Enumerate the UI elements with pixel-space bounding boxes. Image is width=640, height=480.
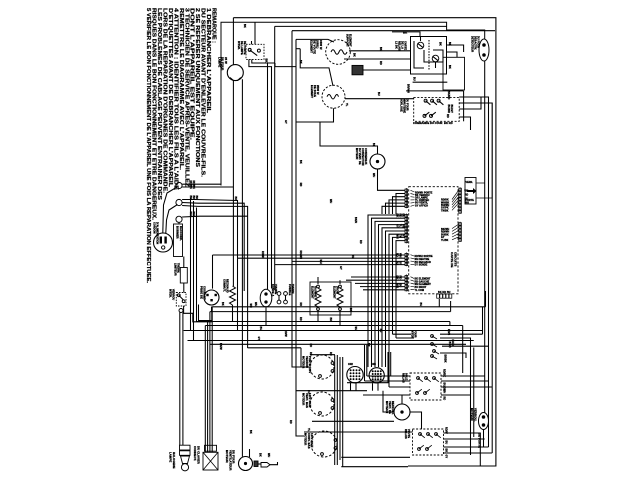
wire xyxy=(419,445,424,449)
wire xyxy=(203,452,218,470)
svg-text:BU/BR: BU/BR xyxy=(447,105,450,114)
element connector CN1 xyxy=(352,65,363,74)
wire fan lead b xyxy=(249,449,251,457)
wire bundle 7 xyxy=(389,234,405,352)
wire xyxy=(464,189,465,191)
svg-text:BU: BU xyxy=(419,303,422,307)
svg-text:BU/B: BU/B xyxy=(448,342,451,348)
clock/timer switches (dashed) xyxy=(414,97,460,121)
svg-text:BK RD BU: BK RD BU xyxy=(438,291,451,294)
svg-text:MOTEUR: MOTEUR xyxy=(355,148,358,160)
svg-text:BK: BK xyxy=(329,318,332,322)
node J1 xyxy=(179,309,183,313)
wire relay internal b xyxy=(414,41,424,68)
wire xyxy=(452,196,459,205)
svg-text:GY: GY xyxy=(339,266,342,270)
svg-text:DU FOUR: DU FOUR xyxy=(477,36,480,48)
wire stub2 xyxy=(247,347,249,350)
wire xyxy=(452,203,459,211)
wire run N xyxy=(238,257,406,259)
wire conn run xyxy=(347,382,389,384)
wire bundle 1 xyxy=(368,215,405,367)
fan connector xyxy=(254,461,258,467)
wire xyxy=(452,227,459,231)
svg-text:ELEMENT: ELEMENT xyxy=(333,286,336,299)
svg-text:CONDENSAT.: CONDENSAT. xyxy=(364,148,367,165)
bake element E2 xyxy=(322,85,345,108)
door switch S1 (dashed) xyxy=(246,44,264,59)
svg-text:5 VERIFIER LE BON FONCTIONNEM: 5 VERIFIER LE BON FONCTIONNEMENT DE L'AP… xyxy=(145,8,151,284)
wire xyxy=(411,205,415,206)
wire switch top lead xyxy=(254,22,256,44)
svg-text:GY AFFICH: GY AFFICH xyxy=(415,204,428,207)
convenience outlet SO1 xyxy=(204,290,219,305)
wire xyxy=(452,224,459,229)
svg-text:RD/W: RD/W xyxy=(261,251,264,258)
svg-text:BK: BK xyxy=(372,143,375,147)
wire run xyxy=(275,264,405,266)
svg-text:L1 BK: L1 BK xyxy=(395,41,398,49)
wire xyxy=(178,222,180,224)
svg-text:VERR.: VERR. xyxy=(466,182,474,184)
svg-text:DESACTIV.: DESACTIV. xyxy=(474,36,477,50)
wire drop 1 xyxy=(211,307,213,452)
wire long run 5 xyxy=(184,330,483,332)
wire run xyxy=(355,282,405,284)
svg-text:RACCORD.: RACCORD. xyxy=(179,226,183,241)
wire long run 7 xyxy=(210,343,466,345)
svg-text:THERM.: THERM. xyxy=(291,284,294,294)
wire switch staircase xyxy=(184,306,212,322)
wire step xyxy=(275,63,296,67)
wire xyxy=(365,380,411,382)
wire xyxy=(426,101,431,105)
svg-text:WH: WH xyxy=(329,199,332,203)
wire xyxy=(411,201,415,204)
svg-text:BU: BU xyxy=(377,92,380,96)
svg-text:ELEMENT: ELEMENT xyxy=(349,34,352,47)
wire m run 6 xyxy=(341,466,408,468)
svg-text:BK: BK xyxy=(299,160,302,164)
svg-text:BU: BU xyxy=(379,329,382,333)
relay board K1 xyxy=(411,37,447,75)
svg-text:RD: RD xyxy=(299,183,302,187)
svg-text:ELEMENT: ELEMENT xyxy=(311,286,314,299)
svg-text:BK: BK xyxy=(445,449,448,453)
wire cord b xyxy=(166,205,178,234)
wire xyxy=(427,445,432,449)
wire xyxy=(434,378,439,382)
wire m lead 6 xyxy=(366,345,368,376)
wire E2 bottom lead xyxy=(296,108,334,122)
wire xyxy=(411,282,415,285)
wire CN1 to relay xyxy=(363,69,411,71)
switch xyxy=(435,433,438,436)
svg-text:BK: BK xyxy=(448,65,451,69)
svg-text:BK/R: BK/R xyxy=(354,217,357,223)
wire xyxy=(452,190,459,200)
connector strip P6 xyxy=(459,222,462,242)
wire xyxy=(411,289,415,291)
wire run xyxy=(292,260,405,262)
broil relay box (dashed) xyxy=(413,429,444,455)
wire xyxy=(278,295,280,300)
svg-text:BK: BK xyxy=(243,24,246,28)
wire xyxy=(452,230,459,234)
svg-text:BORNIER: BORNIER xyxy=(176,226,180,239)
wire power drop b xyxy=(193,201,195,341)
wire N feed b xyxy=(182,203,244,292)
wire xyxy=(411,199,415,201)
wire xyxy=(452,200,459,208)
svg-text:RD/BK: RD/BK xyxy=(189,181,192,190)
wire outlet loop xyxy=(199,305,212,321)
svg-text:BK: BK xyxy=(353,53,356,57)
wire outlet bottom lead xyxy=(211,307,213,312)
svg-text:BU RECHAUD: BU RECHAUD xyxy=(415,261,432,264)
svg-text:RD/B: RD/B xyxy=(447,329,450,335)
grill element box xyxy=(310,282,351,315)
svg-text:RELAIS: RELAIS xyxy=(398,41,401,51)
aux box xyxy=(443,57,465,90)
wire xyxy=(411,277,415,279)
wire relay right a xyxy=(447,45,464,52)
wire xyxy=(433,56,439,60)
oven probe sonde xyxy=(260,289,272,307)
svg-text:HORLOGE: HORLOGE xyxy=(400,99,403,113)
svg-text:BK: BK xyxy=(259,453,262,457)
svg-text:DE PORTE: DE PORTE xyxy=(243,41,246,55)
wire cord a xyxy=(163,188,176,234)
switch xyxy=(433,377,436,380)
svg-text:BU: BU xyxy=(259,327,262,331)
wire xyxy=(417,389,422,393)
wire cn2 pin b xyxy=(355,383,357,391)
switch xyxy=(431,99,434,102)
wire fan top lead xyxy=(401,395,403,404)
wire xyxy=(179,295,183,300)
svg-text:INTER.: INTER. xyxy=(169,289,172,298)
cooling fan motor M6 xyxy=(394,404,410,420)
door lock motor M7 xyxy=(479,413,489,430)
wire xyxy=(203,452,218,470)
wire long run 2 xyxy=(210,311,451,313)
wire g out 3 xyxy=(444,446,489,448)
wire drop 3 xyxy=(207,322,209,453)
wire m run 3 xyxy=(304,431,413,433)
connector strip P3 xyxy=(405,252,408,266)
wire E1 top lead xyxy=(296,39,334,42)
wire bundle 9 xyxy=(396,241,405,338)
svg-text:WH: WH xyxy=(351,255,354,259)
svg-text:BK: BK xyxy=(265,59,269,63)
wire conv top lead xyxy=(320,122,378,154)
wire xyxy=(388,352,390,387)
wire net L2 border xyxy=(221,22,485,185)
wire upper bundle 2 xyxy=(393,197,406,214)
wire fan left lead xyxy=(383,391,394,412)
svg-text:RELAIS: RELAIS xyxy=(404,429,407,439)
wire cn3 pin c xyxy=(387,352,389,383)
wire xyxy=(411,280,415,281)
wire xyxy=(389,386,410,388)
svg-text:YL COM: YL COM xyxy=(415,290,425,292)
svg-text:CN3: CN3 xyxy=(371,364,377,366)
wire fan right lead xyxy=(410,412,422,429)
svg-text:VERROU: VERROU xyxy=(172,289,175,300)
wire sw out 1 xyxy=(440,333,483,335)
svg-text:GY: GY xyxy=(445,455,448,459)
wire bundle 5 xyxy=(382,228,405,367)
connector strip P4 xyxy=(405,274,408,291)
door lock motor M1 xyxy=(310,355,334,379)
svg-text:BU/BK: BU/BK xyxy=(441,234,449,236)
wire E pin b xyxy=(450,301,452,312)
wire xyxy=(405,188,407,208)
wire lamp lead a xyxy=(232,80,234,286)
svg-text:BU: BU xyxy=(445,441,448,445)
svg-text:WH: WH xyxy=(254,302,257,306)
svg-text:DETECTEUR: DETECTEUR xyxy=(471,36,474,52)
switch xyxy=(416,392,419,395)
door interlock switch S2 xyxy=(176,293,186,307)
wire net N inner xyxy=(275,25,447,27)
svg-text:2500 W: 2500 W xyxy=(316,85,320,95)
wire bundle to sw a xyxy=(393,333,412,335)
wire xyxy=(405,252,407,266)
svg-text:RD: RD xyxy=(309,352,312,356)
svg-text:CN2: CN2 xyxy=(348,364,354,366)
svg-text:WH: WH xyxy=(354,327,357,331)
wire run grill b xyxy=(346,279,405,281)
wire xyxy=(452,237,459,240)
wire BR/WH run xyxy=(406,90,464,92)
svg-text:INTER: INTER xyxy=(411,330,414,338)
wire long run 6b xyxy=(248,347,301,349)
interlock module xyxy=(465,178,476,205)
svg-text:BR/WH: BR/WH xyxy=(407,84,410,93)
wire g out 1 xyxy=(444,433,481,466)
svg-text:INTER.: INTER. xyxy=(237,41,240,50)
wire xyxy=(411,255,415,256)
wire sw out 3 xyxy=(442,345,489,347)
switch xyxy=(427,433,430,436)
wire relay top feed xyxy=(392,32,420,37)
svg-text:WH: WH xyxy=(396,235,399,239)
svg-text:THERM.: THERM. xyxy=(177,263,180,273)
svg-text:RD: RD xyxy=(329,352,332,356)
switch xyxy=(437,99,440,102)
svg-text:BU/GY: BU/GY xyxy=(450,105,453,114)
svg-text:GY: GY xyxy=(441,237,445,239)
wire lamp feed b xyxy=(182,312,184,445)
wire lamp top lead xyxy=(232,18,234,65)
wire xyxy=(420,37,422,42)
wire xyxy=(459,222,461,242)
svg-text:WH: WH xyxy=(249,304,252,308)
wire xyxy=(183,257,185,268)
wire m run 5 xyxy=(341,456,410,458)
svg-text:25 W: 25 W xyxy=(224,57,228,64)
wire xyxy=(251,41,253,44)
wire xyxy=(432,101,437,105)
wire xyxy=(285,295,287,300)
wire xyxy=(463,91,465,121)
svg-text:CARTE: CARTE xyxy=(404,41,407,50)
svg-text:RD/BK: RD/BK xyxy=(441,200,449,202)
wire long run 4 xyxy=(205,325,462,327)
wire cn2 pin a xyxy=(350,383,352,391)
wire N feed a xyxy=(182,200,237,259)
wire xyxy=(477,182,485,184)
svg-text:120V 60HZ: 120V 60HZ xyxy=(310,433,314,448)
wire xyxy=(434,351,439,354)
svg-text:RD/WH: RD/WH xyxy=(441,232,450,234)
wire xyxy=(441,386,492,388)
wire bundle to sw b xyxy=(396,337,414,339)
svg-text:D'ALIMENTATION: D'ALIMENTATION xyxy=(156,222,159,244)
wire xyxy=(405,214,407,244)
wire xyxy=(425,389,430,393)
wire L1 feed a xyxy=(182,183,221,185)
svg-text:RD/W: RD/W xyxy=(445,427,448,434)
svg-text:WH: WH xyxy=(443,389,446,393)
wire xyxy=(432,344,437,347)
wire xyxy=(459,187,461,214)
wire E pin a xyxy=(438,299,440,307)
wire upper bundle 5 xyxy=(382,206,405,214)
svg-text:SUPPORT: SUPPORT xyxy=(346,34,349,47)
svg-text:CONVECTION: CONVECTION xyxy=(361,148,364,166)
wire upper bundle 3 xyxy=(389,200,405,214)
wire power drop c xyxy=(196,208,198,322)
wire xyxy=(363,394,410,396)
wire xyxy=(441,380,489,382)
node N terminal xyxy=(176,199,182,205)
note French remarks text block (rotated) xyxy=(145,8,216,284)
svg-text:RD: RD xyxy=(289,420,292,424)
wire upper bundle 1 xyxy=(396,194,405,215)
wire E1 to relay xyxy=(349,50,411,52)
svg-text:BK: BK xyxy=(221,302,224,306)
round connector CN2 xyxy=(347,367,363,383)
wire m run 4 xyxy=(312,420,394,422)
electronic control board (dashed) xyxy=(409,187,458,294)
svg-text:RD/BK: RD/BK xyxy=(192,181,195,190)
wire run xyxy=(363,289,405,291)
svg-text:RD: RD xyxy=(359,240,362,244)
switch xyxy=(419,433,422,436)
wire xyxy=(411,263,415,265)
wire xyxy=(296,48,300,50)
switch xyxy=(423,114,426,117)
halogen lamp assembly xyxy=(180,445,191,450)
wire xyxy=(411,194,415,195)
plug arrow xyxy=(261,463,270,468)
wire xyxy=(439,101,444,105)
wire xyxy=(183,283,185,293)
wire run sortie xyxy=(213,254,406,256)
svg-text:DE PORTE: DE PORTE xyxy=(478,433,482,448)
wire inner top xyxy=(292,30,495,32)
wire drop right 2 xyxy=(473,348,475,438)
grill element RL xyxy=(315,288,321,307)
wire sensor long drop bus1 xyxy=(484,61,486,413)
wire run grill a xyxy=(351,276,405,278)
grill element RR xyxy=(337,288,343,307)
wire RL bottom xyxy=(317,310,319,322)
wire xyxy=(411,285,415,288)
wire xyxy=(405,274,407,291)
svg-text:LIMITEUR: LIMITEUR xyxy=(174,263,177,276)
wire long left drop x296 xyxy=(296,39,304,436)
wire m lead 3 xyxy=(339,357,341,460)
svg-text:RD/BK: RD/BK xyxy=(443,369,446,377)
svg-text:OR LAMPE: OR LAMPE xyxy=(415,197,428,200)
hood fan motor M5 xyxy=(239,457,253,471)
svg-text:BK: BK xyxy=(379,47,382,51)
svg-text:TN/BK: TN/BK xyxy=(441,210,449,212)
fuse F1 xyxy=(180,268,187,284)
svg-text:RD: RD xyxy=(379,61,382,65)
wire lamp/fan lead long xyxy=(241,79,243,457)
wire relay right b xyxy=(447,52,458,57)
svg-text:GY: GY xyxy=(284,120,287,124)
wire clock loop xyxy=(459,97,481,109)
svg-text:BK: BK xyxy=(349,308,352,312)
bake relay box (dashed) xyxy=(410,373,441,400)
wire xyxy=(250,50,258,56)
svg-text:RD: RD xyxy=(446,114,449,118)
wire E2 to clock xyxy=(345,98,414,100)
round connector CN3 xyxy=(369,368,384,383)
wire bundle 8 xyxy=(393,237,406,334)
power plug P1 xyxy=(154,233,173,252)
switch xyxy=(424,99,427,102)
svg-text:DU CLAVIER: DU CLAVIER xyxy=(196,446,200,464)
svg-text:DROIT: DROIT xyxy=(336,286,339,295)
svg-text:WH: WH xyxy=(267,453,270,457)
svg-text:GAUCHE: GAUCHE xyxy=(314,286,317,298)
svg-text:BU DROIT: BU DROIT xyxy=(415,287,427,289)
wire RR bottom xyxy=(339,310,341,326)
svg-text:FOUR: FOUR xyxy=(414,330,417,338)
wire net L1 top/right border xyxy=(233,18,496,466)
svg-text:COURANT: COURANT xyxy=(203,286,207,300)
wire upper bundle 4 xyxy=(386,203,406,214)
wire power drop a xyxy=(190,198,192,331)
wire relay internal xyxy=(428,40,430,70)
svg-text:BK: BK xyxy=(234,197,237,201)
oven sensor DET xyxy=(479,39,489,61)
wire stub xyxy=(449,322,451,327)
wire E2 top lead xyxy=(300,49,333,86)
wire motor feed 301 xyxy=(300,348,302,367)
svg-text:WH: WH xyxy=(372,173,375,177)
wire conv bottom lead xyxy=(378,169,406,190)
wire sw to right xyxy=(252,62,275,64)
svg-text:BK: BK xyxy=(192,196,195,200)
wire N feed c xyxy=(182,206,248,348)
svg-text:WH NEUTRE: WH NEUTRE xyxy=(415,259,430,261)
svg-text:BK ELEMENT: BK ELEMENT xyxy=(415,279,431,281)
wire xyxy=(258,463,261,465)
svg-text:BR/BK: BR/BK xyxy=(444,355,447,363)
wire rise bus xyxy=(485,291,487,307)
wire lamp feed a xyxy=(179,312,181,445)
svg-text:RD: RD xyxy=(309,344,312,348)
svg-text:RECHAUD: RECHAUD xyxy=(226,279,230,293)
